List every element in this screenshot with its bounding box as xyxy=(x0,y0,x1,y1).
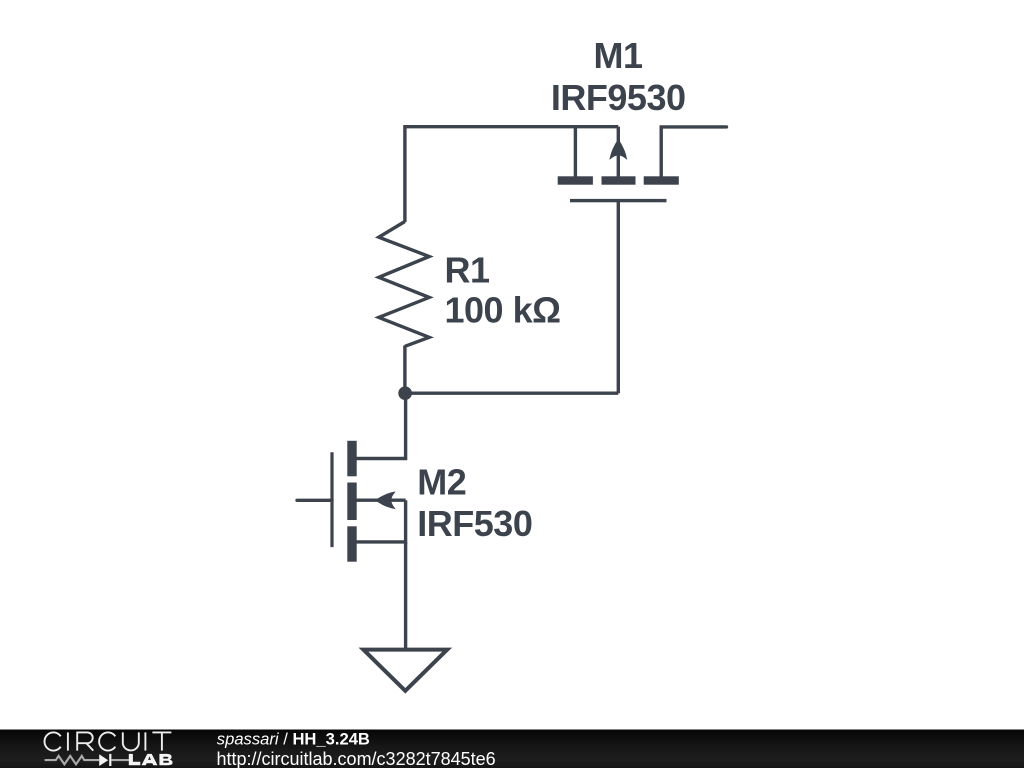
wire node to M2 drain lead xyxy=(356,393,406,458)
logo LAB word (drawn) xyxy=(129,754,173,765)
wire M2 body lead xyxy=(356,499,406,502)
wire node horizontal xyxy=(405,392,618,395)
transistor M1 body arrow xyxy=(609,139,627,160)
wire M1 body lead xyxy=(617,127,620,177)
wire M1 source lead xyxy=(661,127,726,177)
transistor M1 channel bar right xyxy=(644,176,679,184)
logo CIRCUIT word (drawn thin letters) xyxy=(44,732,171,750)
svg-text:http://circuitlab.com/c3282t78: http://circuitlab.com/c3282t7845te6 xyxy=(217,749,496,768)
wire M2 source down xyxy=(404,542,407,648)
resistor R1 body zigzag xyxy=(379,222,429,347)
svg-text:M1: M1 xyxy=(593,35,642,76)
transistor M2 gate plate xyxy=(330,452,333,547)
svg-text:spassari / HH_3.24B: spassari / HH_3.24B xyxy=(217,730,370,749)
wire M2 source lead and down to ground xyxy=(356,500,406,542)
transistor M2 body arrow xyxy=(375,491,396,509)
wire M1 drain lead xyxy=(574,127,577,177)
transistor M1 channel bar left xyxy=(558,176,593,184)
wire R1 bottom to node xyxy=(403,346,406,394)
transistor M1 channel bar middle xyxy=(602,176,636,184)
svg-text:R1: R1 xyxy=(445,249,490,290)
logo diode symbol xyxy=(99,754,108,766)
svg-text:IRF9530: IRF9530 xyxy=(551,77,686,118)
wire M1 gate to node xyxy=(617,201,620,393)
svg-text:IRF530: IRF530 xyxy=(417,503,532,544)
transistor M2 channel bar middle xyxy=(347,483,356,521)
logo diode wire to LAB xyxy=(111,759,129,761)
transistor M2 channel bar top xyxy=(347,441,356,477)
wire M2 gate lead xyxy=(297,499,332,502)
transistor M1 gate plate xyxy=(570,199,667,202)
node junction dot xyxy=(398,386,412,400)
svg-text:M2: M2 xyxy=(417,462,466,503)
svg-text:100 kΩ: 100 kΩ xyxy=(445,289,561,330)
transistor M2 channel bar bottom xyxy=(347,526,356,561)
ground symbol xyxy=(363,650,447,691)
wire V+ rail from R1 top to M1 drain/body xyxy=(405,127,618,222)
logo resistor squiggle wire xyxy=(45,756,100,764)
